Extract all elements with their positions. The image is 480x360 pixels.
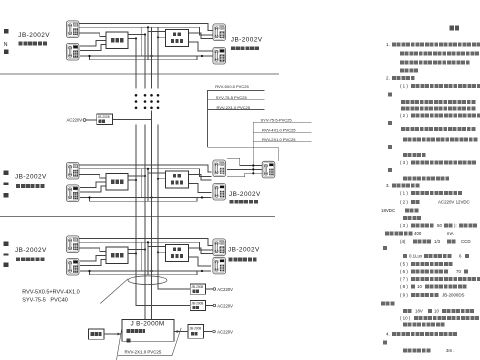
svg-text:RVV-5X0.5 PVC25: RVV-5X0.5 PVC25 (215, 84, 249, 89)
main unit JB-2000M box (122, 320, 174, 342)
junction dots on callout leader (252, 164, 254, 174)
floor 2 row (66, 162, 225, 205)
notes title 说明 (449, 26, 459, 31)
svg-text:RVV-2X1.0 PVC25: RVV-2X1.0 PVC25 (262, 137, 296, 142)
svg-text:( 9 ): ( 9 ) (400, 293, 408, 298)
separator floor N / floor 2 (0, 73, 279, 75)
svg-text:3m .: 3m . (446, 348, 455, 353)
svg-text:SYV-75-5 PVC40: SYV-75-5 PVC40 (22, 298, 68, 304)
svg-text:10: 10 (417, 284, 422, 289)
arrowhead out of main unit (177, 330, 180, 333)
power row 2 AC circle (213, 304, 216, 307)
note line y123.0 (388, 121, 392, 125)
floor N label 第 N 层 (4, 29, 9, 54)
note line y102.0 (401, 100, 476, 104)
floor2 right phones reposition patch (211, 164, 228, 183)
svg-text:( 2 ): ( 2 ) (400, 113, 408, 118)
svg-text:18V: 18V (415, 309, 423, 314)
svg-text:SYV-75-5-PVC25: SYV-75-5-PVC25 (261, 117, 293, 122)
wire lock to main unit (104, 333, 121, 335)
svg-text:JB-2002V: JB-2002V (228, 247, 260, 254)
riser bus line 1 (136, 39, 190, 306)
note line y350.5 (403, 348, 431, 352)
power row 2 wire (136, 305, 190, 307)
svg-text:50: 50 (437, 223, 442, 228)
svg-text:( 3 ): ( 3 ) (400, 223, 408, 228)
svg-text:1/3: 1/3 (434, 239, 441, 244)
note line y217.8 (403, 216, 421, 220)
svg-text:1.: 1. (386, 42, 390, 47)
note line y178.3 (403, 176, 449, 180)
svg-text:0.1Lux: 0.1Lux (409, 254, 423, 259)
note line y139.4 (403, 137, 478, 141)
note line y311.0 (403, 309, 412, 313)
svg-text:( 2 ): ( 2 ) (400, 200, 408, 205)
svg-text:( 1 ): ( 1 ) (400, 190, 408, 195)
floor 1 row (66, 236, 225, 279)
lower cable callout lines (253, 122, 311, 173)
svg-text:AC220V: AC220V (217, 287, 233, 292)
note line y342.5 (383, 340, 387, 344)
floor 1 label 第一层 (4, 242, 9, 268)
power row 1 wire (158, 288, 190, 290)
leader line to ellipse (100, 279, 128, 304)
note line y303.5 (381, 301, 394, 305)
floor 2 type label CJK (16, 184, 45, 188)
electric lock box 电控锁 (88, 329, 104, 339)
power row 1 wire out (206, 288, 213, 290)
svg-text:JB-2002V: JB-2002V (229, 191, 261, 198)
wire power box to riser (113, 119, 152, 121)
svg-text:AC220V: AC220V (217, 304, 233, 309)
svg-text:( 3 ): ( 3 ) (400, 160, 408, 165)
note line y256.0 (403, 254, 407, 258)
power box top JB-2008 (97, 114, 113, 124)
svg-text:RVV-2X1.0 PVC25: RVV-2X1.0 PVC25 (125, 350, 162, 355)
riser bus line 3 (151, 27, 153, 319)
svg-text:JB-2000DS: JB-2000DS (442, 293, 465, 298)
lock cable label bracket (117, 327, 182, 360)
svg-text:JB-2002V: JB-2002V (231, 36, 263, 43)
AC220V terminal circle top (83, 119, 86, 122)
svg-text:70: 70 (456, 269, 461, 274)
svg-text:N: N (4, 42, 8, 48)
svg-text:RVV-2X1.0 PVC25: RVV-2X1.0 PVC25 (217, 105, 251, 110)
note line y108.5 (401, 106, 476, 110)
svg-text:( 5 ): ( 5 ) (400, 261, 408, 266)
riser bus line 4 (158, 27, 190, 289)
separator floor 2 / floor 1 (0, 216, 275, 218)
riser bus line 2 (144, 35, 146, 320)
note line y129.0 (401, 127, 476, 131)
note line y53.3 (400, 51, 479, 55)
floor1 phone R2 reposition patch (211, 261, 228, 281)
svg-text:JB-2008: JB-2008 (191, 285, 203, 289)
svg-text:( 10 ): ( 10 ) (400, 316, 411, 321)
floor N row (66, 21, 225, 64)
floor2 extra phone (262, 161, 275, 178)
power row 2 box JB-2008 (190, 300, 205, 310)
AC220V terminal circle bottom (213, 330, 216, 333)
svg-text:18VDC: 18VDC (381, 208, 395, 213)
floor 2 label 第二层 (4, 171, 9, 198)
note line y62.5 (400, 60, 470, 64)
svg-text:RVV-4X1.0 PVC25: RVV-4X1.0 PVC25 (262, 128, 296, 133)
wire main unit to power box (174, 331, 188, 333)
wire power to AC terminal (204, 331, 213, 333)
arrowhead into main unit (118, 333, 121, 336)
power row 2 wire out (206, 305, 213, 307)
note line y155.0 (403, 153, 426, 157)
power row 1 AC circle (213, 288, 216, 291)
power box bottom JB-2008 (188, 324, 204, 338)
bus continuation dots (135, 94, 160, 109)
svg-text:JB-2008: JB-2008 (191, 301, 203, 305)
svg-text:JB-2002V: JB-2002V (18, 32, 50, 39)
wire AC to power box (86, 119, 97, 121)
svg-text:):: ): (454, 223, 457, 228)
note line y248.0 (383, 246, 387, 250)
wires to floor2 extra phone (227, 158, 262, 176)
svg-text:JB-2008: JB-2008 (98, 115, 110, 119)
svg-text:AC220V: AC220V (67, 118, 83, 123)
note line y233.5 (385, 231, 413, 235)
note line y70.5 (400, 68, 418, 72)
svg-text:10: 10 (434, 309, 439, 314)
note line y324.5 (403, 322, 445, 326)
svg-text:( 7 ): ( 7 ) (400, 276, 408, 281)
svg-text:2.: 2. (386, 76, 390, 81)
floor N type label CJK (19, 42, 48, 46)
svg-text:mA: mA (447, 231, 454, 236)
svg-text:J B-2000M: J B-2000M (131, 321, 165, 328)
floor N right type label CJK (231, 46, 260, 50)
floor 1 right type label CJK (229, 258, 257, 262)
upper cable callout lines (208, 91, 279, 161)
svg-text:(4): (4) (400, 239, 406, 244)
cable bundle ellipse (128, 276, 167, 285)
floor 2 right type label CJK (230, 200, 259, 204)
note line y94.5 (388, 92, 392, 96)
main unit CJK label 编码可视主机 (126, 329, 145, 333)
svg-text:RVV-5X0.5+RVV-4X1.0: RVV-5X0.5+RVV-4X1.0 (22, 290, 79, 296)
svg-text:AC220V 12VDC: AC220V 12VDC (438, 200, 470, 205)
svg-text:JB-2008: JB-2008 (189, 326, 201, 330)
svg-text:( 6 ): ( 6 ) (400, 269, 408, 274)
note line y147.0 (388, 145, 392, 149)
svg-text:( 1 ): ( 1 ) (400, 83, 408, 88)
svg-text:AC220V: AC220V (217, 330, 233, 335)
svg-text:JB-2002V: JB-2002V (15, 247, 47, 254)
power row 1 box JB-2008 (190, 284, 205, 294)
svg-text:4.: 4. (386, 331, 390, 336)
svg-text:CCD: CCD (461, 239, 471, 244)
svg-text:( 8 ): ( 8 ) (400, 284, 408, 289)
svg-text:SYV-75-5 PVC25: SYV-75-5 PVC25 (216, 95, 248, 100)
note line y170.0 (388, 168, 392, 172)
floor 1 type label CJK (16, 257, 45, 261)
svg-text:3.: 3. (386, 183, 390, 188)
svg-text:JB-2002V: JB-2002V (15, 174, 47, 181)
svg-text:400: 400 (414, 231, 422, 236)
